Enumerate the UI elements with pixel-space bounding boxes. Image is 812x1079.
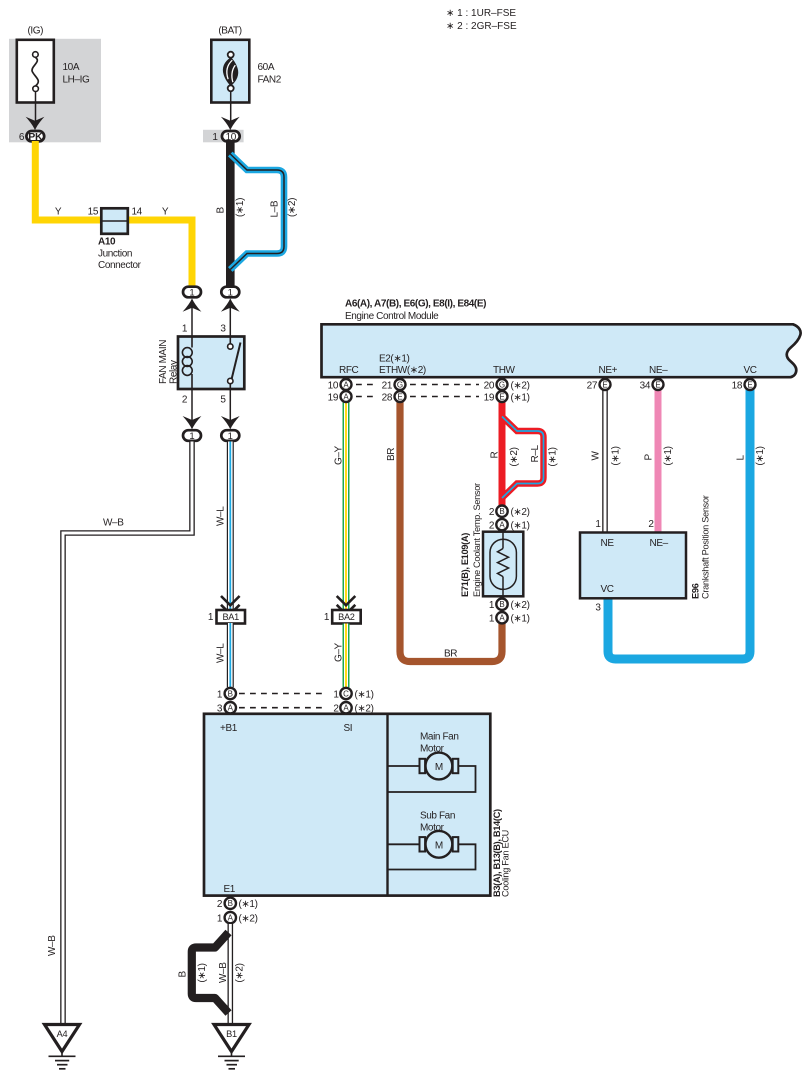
terminal label E1: [224, 884, 236, 895]
terminal label +B1: [220, 723, 238, 734]
svg-text:SI: SI: [344, 723, 353, 734]
svg-text:M: M: [435, 840, 443, 851]
svg-text:1: 1: [228, 287, 233, 298]
wire from fuse FAN2 down: [230, 91, 232, 127]
connector 1 (below relay left): [183, 430, 201, 442]
wire W-B from relay to ground A4: [63, 442, 192, 1025]
svg-text:+B1: +B1: [220, 723, 238, 734]
svg-text:A: A: [228, 704, 234, 713]
svg-text:LH–IG: LH–IG: [63, 75, 91, 86]
wire label L-B: [270, 200, 281, 217]
label (*1) W: [611, 446, 622, 465]
svg-text:Crankshaft Position Sensor: Crankshaft Position Sensor: [701, 495, 711, 599]
chevrons above BA2: [337, 596, 356, 614]
svg-text:VC: VC: [744, 365, 757, 376]
terminal label E2/ETHW: [379, 354, 426, 377]
label Main Fan Motor: [420, 732, 459, 755]
svg-text:BA2: BA2: [338, 612, 355, 622]
svg-text:1: 1: [333, 689, 339, 700]
junction connector A10: [101, 208, 128, 234]
wire R-L loop (alternate *1): [502, 417, 544, 499]
label (*1): [235, 198, 246, 217]
svg-text:(∗1): (∗1): [663, 446, 674, 465]
svg-text:1: 1: [489, 614, 495, 625]
svg-text:B: B: [228, 899, 233, 908]
svg-text:18: 18: [732, 380, 743, 391]
svg-text:W–L: W–L: [216, 506, 227, 526]
gray background panel (IG fuse area): [9, 39, 101, 143]
wire from fuse to connector PK: [35, 92, 37, 128]
svg-text:15: 15: [88, 207, 99, 218]
thermistor element: [490, 532, 516, 597]
svg-text:G–Y: G–Y: [334, 445, 345, 465]
svg-text:E: E: [747, 380, 752, 389]
svg-text:2: 2: [648, 519, 654, 530]
svg-text:(∗1): (∗1): [511, 392, 530, 403]
fan ECU pin 1 C: [333, 688, 373, 701]
svg-text:(BAT): (BAT): [218, 26, 241, 37]
svg-text:A: A: [343, 392, 349, 401]
ECM pin 28 E: [382, 391, 406, 403]
pin 1 label (relay): [182, 324, 188, 335]
svg-text:Engine Control Module: Engine Control Module: [345, 311, 439, 322]
svg-text:Cooling Fan ECU: Cooling Fan ECU: [501, 830, 511, 897]
svg-text:A4: A4: [57, 1029, 68, 1039]
svg-text:1: 1: [189, 431, 194, 442]
svg-text:19: 19: [484, 392, 495, 403]
svg-text:1: 1: [217, 689, 223, 700]
connector BA2: [332, 610, 361, 624]
label B3(A), B13(B), B14(C) Cooling Fan ECU: [492, 809, 511, 897]
arrow down into connector (pin2): [183, 416, 202, 429]
svg-text:(∗2): (∗2): [287, 198, 298, 217]
legend note *2: [446, 21, 517, 32]
label E71(B), E109(A) Engine Coolant Temp. Sensor: [460, 483, 482, 597]
ECM pin 21 G: [382, 379, 406, 391]
wire BR from ECM pin 28 to coolant sensor: [400, 396, 502, 662]
label (*2) bottom: [235, 963, 246, 982]
svg-text:THW: THW: [493, 365, 516, 376]
cooling fan ECU box: [204, 714, 490, 896]
svg-text:A: A: [343, 380, 349, 389]
svg-text:Engine Coolant Temp. Sensor: Engine Coolant Temp. Sensor: [472, 483, 482, 597]
terminal label NE- (sensor): [650, 538, 669, 549]
svg-text:20: 20: [484, 380, 495, 391]
svg-text:3: 3: [595, 603, 601, 614]
wire label P: [644, 454, 655, 461]
terminal label NE-: [649, 365, 668, 376]
sub fan motor M2: [388, 831, 476, 870]
svg-text:(∗2): (∗2): [239, 913, 258, 924]
label (*2): [287, 198, 298, 217]
svg-text:Connector: Connector: [98, 260, 142, 271]
label (*1) L: [755, 446, 766, 465]
svg-text:Y: Y: [55, 207, 62, 218]
svg-text:G: G: [499, 380, 505, 389]
fan ECU pin 1 B: [217, 688, 236, 701]
svg-text:(∗1): (∗1): [548, 447, 559, 466]
label (*2) red: [509, 447, 520, 466]
label (*1) red loop: [548, 447, 559, 466]
svg-text:W: W: [591, 451, 602, 461]
svg-text:E1: E1: [224, 884, 236, 895]
fan ECU pin 2 A: [333, 702, 373, 715]
wire P from ECM pin 34 to crank sensor: [655, 384, 662, 533]
svg-text:5: 5: [220, 395, 226, 406]
svg-text:B: B: [499, 507, 504, 516]
wire label B: [216, 207, 227, 214]
svg-text:VC: VC: [601, 584, 614, 595]
ground B1: [214, 1025, 249, 1069]
pin 6 label: [19, 132, 25, 143]
wire W-L from relay to BA1: [227, 442, 234, 611]
svg-text:W–B: W–B: [47, 935, 58, 956]
svg-text:(∗2): (∗2): [235, 963, 246, 982]
svg-text:1: 1: [182, 324, 188, 335]
wire R from ECM pin 19E to coolant sensor: [499, 396, 506, 506]
terminal label SI: [344, 723, 353, 734]
wire label L: [736, 455, 747, 461]
wire label R-L: [530, 445, 541, 463]
svg-text:1: 1: [489, 600, 495, 611]
dashes row2 b: [410, 396, 479, 398]
ECM pin 34 E: [640, 379, 664, 391]
svg-text:RFC: RFC: [339, 365, 359, 376]
chevrons above BA1: [221, 596, 240, 614]
svg-text:(∗1): (∗1): [511, 614, 530, 625]
svg-text:2: 2: [217, 899, 223, 910]
svg-text:BA1: BA1: [222, 612, 239, 622]
svg-text:E: E: [499, 392, 504, 401]
value label 60A FAN2: [258, 62, 282, 86]
connector 1 (yellow wire, above relay): [183, 287, 201, 299]
svg-text:Junction: Junction: [98, 249, 132, 260]
svg-text:C: C: [343, 689, 349, 698]
svg-text:10A: 10A: [63, 62, 80, 73]
arrow down into connector (pin5): [221, 416, 240, 429]
connector PK: [26, 131, 44, 143]
wire relay pin5 down: [229, 389, 231, 424]
connector BA1: [217, 610, 246, 624]
svg-text:A: A: [228, 914, 234, 923]
label FAN MAIN Relay: [158, 340, 180, 384]
svg-text:6: 6: [19, 132, 25, 143]
wire Y (yellow) from PK to relay: [35, 141, 192, 287]
dashes fan row2: [239, 707, 326, 709]
crank sensor pin 2 label: [648, 519, 654, 530]
svg-text:60A: 60A: [258, 62, 275, 73]
crank sensor pin 1 label: [595, 519, 601, 530]
wire G-Y from BA2 to ECU: [343, 624, 350, 688]
fuse 60A FAN2 element: [223, 52, 238, 92]
svg-text:Relay: Relay: [169, 360, 180, 384]
svg-text:28: 28: [382, 392, 393, 403]
pin 3 label (relay): [220, 324, 226, 335]
svg-text:A10: A10: [98, 237, 116, 248]
svg-text:L: L: [736, 455, 747, 461]
svg-text:(∗1): (∗1): [239, 899, 258, 910]
relay switch: [228, 337, 241, 390]
wire G-Y from ECM pin 19 to BA2: [343, 396, 350, 610]
ground A4: [45, 1025, 80, 1069]
dashes row1 a: [356, 384, 376, 386]
svg-text:E: E: [397, 392, 402, 401]
svg-text:14: 14: [132, 207, 143, 218]
svg-text:A: A: [499, 614, 505, 623]
coolant sensor pin 1 A: [489, 612, 530, 625]
ECM title: [345, 299, 486, 323]
wire relay pin1 up: [191, 304, 193, 337]
svg-text:(∗2): (∗2): [511, 600, 530, 611]
ECM box: [322, 324, 801, 377]
ECM pin 27 E: [587, 379, 611, 391]
svg-text:BR: BR: [444, 649, 457, 660]
wire W from ECM pin 27 to crank sensor: [602, 384, 608, 533]
svg-text:FAN2: FAN2: [258, 75, 282, 86]
svg-text:(∗1): (∗1): [197, 963, 208, 982]
wire label W-B (vertical): [47, 935, 58, 956]
terminal label NE: [601, 538, 615, 549]
svg-text:1: 1: [228, 431, 233, 442]
svg-text:G: G: [397, 380, 403, 389]
wire label Y (left): [55, 207, 62, 218]
label (*1) bottom: [197, 963, 208, 982]
svg-text:G–Y: G–Y: [334, 642, 345, 662]
svg-text:∗ 1 : 1UR–FSE: ∗ 1 : 1UR–FSE: [446, 8, 516, 19]
svg-text:1: 1: [212, 132, 218, 143]
svg-text:(IG): (IG): [27, 26, 43, 37]
coolant sensor pin 1 B: [489, 599, 530, 612]
label E96 Crankshaft Position Sensor: [691, 495, 711, 599]
fan ECU pin 3 A: [217, 702, 236, 715]
svg-text:10: 10: [226, 132, 237, 143]
svg-text:2: 2: [182, 395, 188, 406]
fan ECU divider: [386, 714, 388, 896]
node (IG) label: [27, 26, 43, 37]
wire label G-Y (upper): [334, 445, 345, 465]
gray band behind connector 1O: [203, 130, 244, 143]
svg-text:(∗2): (∗2): [509, 447, 520, 466]
svg-text:W–L: W–L: [216, 643, 227, 663]
svg-text:34: 34: [640, 380, 651, 391]
wire L (VC) from ECM pin 18 to crank sensor: [608, 384, 750, 659]
svg-text:W–B: W–B: [103, 518, 124, 529]
svg-text:BR: BR: [386, 448, 397, 461]
node (BAT) label: [218, 26, 241, 37]
svg-text:(∗2): (∗2): [511, 380, 530, 391]
svg-text:R–L: R–L: [530, 445, 541, 463]
svg-text:10: 10: [328, 380, 339, 391]
dashes row1 b: [410, 384, 479, 386]
svg-text:Sub Fan: Sub Fan: [420, 811, 455, 822]
connector 1O: [222, 131, 240, 143]
svg-text:3: 3: [220, 324, 226, 335]
terminal label NE+: [599, 365, 618, 376]
svg-text:M: M: [435, 762, 443, 773]
svg-text:1: 1: [217, 913, 223, 924]
ECM pin 19 E: [484, 391, 530, 403]
fuse 10A LH-IG element: [32, 52, 38, 92]
svg-text:1: 1: [208, 612, 214, 623]
svg-text:E71(B), E109(A): E71(B), E109(A): [460, 533, 470, 597]
svg-text:1: 1: [595, 519, 601, 530]
wire label BR (horizontal): [444, 649, 457, 660]
wire label Y (right): [162, 207, 169, 218]
terminal label VC (sensor): [601, 584, 614, 595]
label A10 Junction Connector: [98, 237, 142, 272]
svg-text:E2(∗1): E2(∗1): [379, 354, 410, 365]
ECM pin 20 G: [484, 379, 530, 391]
label Sub Fan Motor: [420, 811, 455, 834]
crank sensor pin 3 label: [595, 603, 601, 614]
svg-text:W–B: W–B: [218, 962, 229, 983]
svg-text:A: A: [343, 704, 349, 713]
svg-text:(∗1): (∗1): [511, 520, 530, 531]
svg-text:2: 2: [489, 520, 495, 531]
arrow up into connector (pin1): [183, 298, 202, 311]
pin 2 label (relay): [182, 395, 188, 406]
pin 1 label: [212, 132, 218, 143]
wire label W-B (bottom): [218, 962, 229, 983]
svg-text:B: B: [228, 689, 233, 698]
coolant temp sensor box: [483, 532, 523, 597]
svg-text:E: E: [655, 380, 660, 389]
svg-text:NE+: NE+: [599, 365, 618, 376]
svg-text:21: 21: [382, 380, 393, 391]
wire relay pin2 down: [191, 389, 193, 424]
value label 10A LH-IG: [63, 62, 91, 86]
svg-text:NE–: NE–: [650, 538, 669, 549]
wire W-L from BA1 to ECU: [227, 623, 234, 687]
svg-text:P: P: [644, 454, 655, 461]
svg-text:(∗1): (∗1): [235, 198, 246, 217]
wire W-B from ECU E1 to ground B1: [228, 924, 234, 1025]
pin 5 label (relay): [220, 395, 226, 406]
connector 1 (below relay right): [221, 430, 239, 442]
svg-text:19: 19: [328, 392, 339, 403]
svg-text:A6(A), A7(B), E6(G), E8(I), E8: A6(A), A7(B), E6(G), E8(I), E84(E): [345, 299, 486, 310]
pin 1 label (BA2): [324, 612, 330, 623]
svg-text:27: 27: [587, 380, 598, 391]
wire label G-Y (lower): [334, 642, 345, 662]
terminal label VC: [744, 365, 757, 376]
ECM pin row 1: pin 10 A: [328, 379, 352, 391]
svg-text:A: A: [499, 521, 505, 530]
wire label B (bottom): [178, 971, 189, 978]
svg-text:(∗2): (∗2): [511, 507, 530, 518]
svg-text:E96: E96: [691, 583, 701, 599]
ECM pin row 2: pin 19 A: [328, 391, 352, 403]
coolant sensor pin 2 B: [489, 506, 530, 519]
svg-text:FAN MAIN: FAN MAIN: [158, 340, 169, 384]
svg-text:B: B: [216, 207, 227, 214]
svg-text:B: B: [499, 600, 504, 609]
pin 15 label: [88, 207, 99, 218]
svg-text:NE: NE: [601, 538, 615, 549]
legend note *1: [446, 8, 516, 19]
svg-text:E: E: [602, 380, 607, 389]
dashes fan row1: [239, 693, 326, 695]
fuse 10A LH-IG box: [17, 40, 54, 103]
label (*1) P: [663, 446, 674, 465]
arrow into 1O: [221, 117, 240, 130]
svg-text:2: 2: [489, 507, 495, 518]
svg-text:∗ 2 : 2GR–FSE: ∗ 2 : 2GR–FSE: [446, 21, 517, 32]
main fan motor M1: [388, 753, 476, 792]
svg-text:B: B: [178, 971, 189, 978]
wire label W-L (upper): [216, 506, 227, 526]
crankshaft position sensor box E96: [580, 533, 686, 599]
wire L-B loop (alternate *2): [230, 154, 284, 270]
wire relay pin3 up: [229, 304, 231, 337]
wire label W: [591, 451, 602, 461]
svg-text:Y: Y: [162, 207, 169, 218]
wire B loop (alternate *1): [192, 933, 229, 1014]
svg-text:R: R: [490, 452, 501, 459]
connector 1 (black wire, above relay): [221, 287, 239, 299]
pin 14 label: [132, 207, 143, 218]
svg-text:L–B: L–B: [270, 200, 281, 217]
fan ECU pin 2 B (E1): [217, 898, 258, 910]
relay coil: [182, 337, 192, 390]
svg-text:ETHW(∗2): ETHW(∗2): [379, 365, 426, 376]
wire label W-L (lower): [216, 643, 227, 663]
svg-text:B1: B1: [226, 1029, 237, 1039]
svg-text:Main Fan: Main Fan: [420, 732, 459, 743]
wire label BR (vertical): [386, 448, 397, 461]
fuse 60A FAN2 box: [211, 40, 249, 103]
arrow into PK: [26, 117, 45, 130]
wire label R: [490, 452, 501, 459]
dashes row2 a: [356, 396, 376, 398]
svg-text:(∗1): (∗1): [355, 689, 374, 700]
terminal label RFC: [339, 365, 359, 376]
svg-text:NE–: NE–: [649, 365, 668, 376]
pin 1 label (BA1): [208, 612, 214, 623]
wire B (black) from 1O to relay: [226, 143, 235, 288]
fan ECU pin 1 A (E1): [217, 912, 258, 924]
wire label W-B (horizontal): [103, 518, 124, 529]
terminal label THW: [493, 365, 516, 376]
svg-text:1: 1: [324, 612, 330, 623]
relay FAN MAIN box: [178, 337, 244, 390]
coolant sensor pin 2 A: [489, 519, 530, 532]
svg-text:(∗1): (∗1): [755, 446, 766, 465]
arrow up into connector (pin3): [221, 298, 240, 311]
ECM pin 18 E: [732, 379, 756, 391]
svg-text:(∗1): (∗1): [611, 446, 622, 465]
svg-text:1: 1: [189, 287, 194, 298]
